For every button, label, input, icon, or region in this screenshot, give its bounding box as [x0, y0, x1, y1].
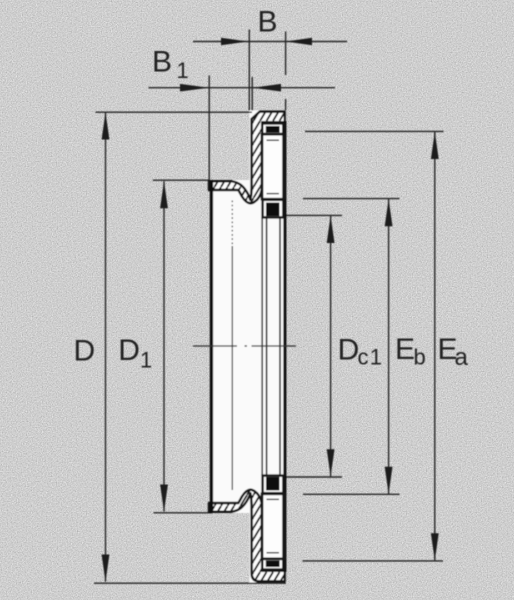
svg-text:D: D [338, 334, 360, 367]
svg-text:1: 1 [140, 348, 152, 373]
svg-text:1: 1 [177, 58, 189, 83]
svg-text:B: B [152, 46, 172, 79]
svg-text:b: b [414, 345, 426, 370]
svg-text:c: c [358, 345, 369, 370]
svg-text:a: a [455, 344, 469, 371]
svg-text:1: 1 [370, 345, 382, 370]
svg-text:D: D [74, 334, 96, 367]
svg-text:D: D [118, 334, 140, 367]
svg-text:E: E [395, 333, 415, 366]
svg-text:B: B [258, 6, 278, 39]
